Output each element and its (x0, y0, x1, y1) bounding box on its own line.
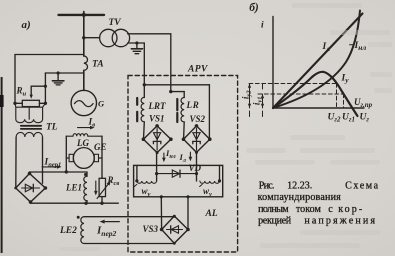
svg-text:VS1: VS1 (149, 114, 165, 124)
svg-text:рекцией: рекцией (258, 216, 292, 227)
svg-text:током: током (296, 204, 322, 215)
svg-text:LE1: LE1 (65, 183, 82, 193)
svg-text:AL: AL (205, 209, 218, 219)
svg-text:Рис.: Рис. (259, 180, 275, 191)
svg-text:TL: TL (46, 123, 58, 133)
svg-text:i: i (261, 21, 264, 31)
svg-text:LRT: LRT (148, 101, 167, 111)
svg-text:a): a) (22, 19, 31, 31)
svg-text:Iу: Iу (341, 74, 350, 85)
svg-text:Iл: Iл (322, 42, 331, 53)
svg-text:LR: LR (186, 100, 200, 110)
svg-text:TA: TA (92, 60, 104, 70)
svg-text:напряжения: напряжения (304, 216, 375, 227)
svg-text:TV: TV (109, 18, 122, 28)
svg-text:полным: полным (258, 204, 289, 215)
svg-text:GE: GE (94, 142, 107, 152)
svg-text:с: с (328, 204, 333, 215)
svg-text:б): б) (249, 2, 259, 14)
svg-text:APV: APV (187, 65, 208, 75)
svg-text:Iнл: Iнл (354, 41, 367, 52)
svg-text:VD: VD (189, 163, 202, 173)
svg-text:12.23.: 12.23. (287, 180, 312, 191)
svg-text:G: G (98, 99, 105, 109)
svg-text:VS2: VS2 (190, 114, 206, 124)
svg-text:компаундирования: компаундирования (258, 192, 342, 203)
svg-text:Схема: Схема (345, 180, 379, 191)
svg-text:LG: LG (76, 138, 89, 148)
svg-text:LE2: LE2 (59, 226, 77, 236)
svg-text:VS3: VS3 (143, 224, 159, 234)
